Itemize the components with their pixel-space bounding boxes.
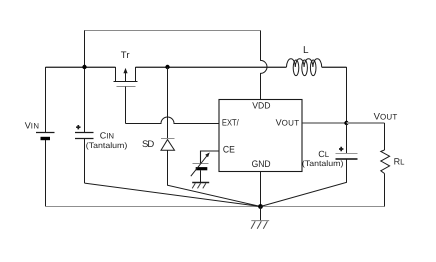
- wire switch node to inductor: [136, 66, 287, 68]
- transistor Tr: [114, 67, 138, 124]
- wire VDD vertical with hop over switch node line: [261, 31, 268, 100]
- CIN plus sign: [76, 125, 80, 129]
- wire bottom ground rail: [46, 206, 385, 208]
- svg-text:Tr: Tr: [121, 50, 130, 61]
- inductor L: [287, 59, 322, 76]
- svg-text:CE: CE: [223, 145, 235, 156]
- svg-text:VOUT: VOUT: [276, 118, 300, 128]
- svg-text:L: L: [303, 45, 309, 56]
- capacitor CIN: [75, 67, 94, 183]
- node A junction VIN/CIN/VDD: [82, 65, 86, 69]
- svg-text:(Tantalum): (Tantalum): [86, 141, 128, 150]
- svg-text:(Tantalum): (Tantalum): [302, 159, 344, 168]
- IC U1 box: [219, 100, 302, 172]
- wire CIN ground diagonal: [85, 183, 261, 206]
- svg-text:RL: RL: [394, 156, 406, 166]
- node B junction switch node: [165, 65, 169, 69]
- ground main symbol: [251, 207, 269, 229]
- svg-text:VIN: VIN: [25, 120, 40, 130]
- svg-text:VOUT: VOUT: [374, 111, 398, 122]
- wire output node to RL: [347, 122, 385, 124]
- svg-text:CIN: CIN: [100, 130, 114, 140]
- wire main input line: [46, 66, 116, 68]
- wire EXT line with hop over diode wire: [126, 117, 220, 124]
- svg-text:GND: GND: [252, 159, 271, 170]
- CL plus sign: [339, 147, 343, 151]
- resistor RL: [381, 123, 390, 207]
- wire inductor to VOUT node: [322, 66, 347, 68]
- capacitor CL: [261, 123, 358, 207]
- wire VOUT pin to output node: [303, 122, 347, 124]
- ground trimmer symbol: [192, 183, 209, 189]
- node D ground junction: [258, 204, 263, 209]
- trimmer on CE pin: [191, 151, 219, 183]
- battery VIN: [36, 67, 55, 207]
- svg-text:CL: CL: [318, 149, 330, 159]
- svg-text:VDD: VDD: [252, 100, 271, 110]
- diode SD: [161, 67, 261, 207]
- svg-text:EXT/: EXT/: [222, 118, 239, 128]
- node C output junction: [344, 121, 348, 125]
- svg-text:SD: SD: [142, 139, 154, 150]
- wire GND pin to ground: [260, 172, 262, 207]
- wire top rail VIN to VDD: [84, 30, 86, 67]
